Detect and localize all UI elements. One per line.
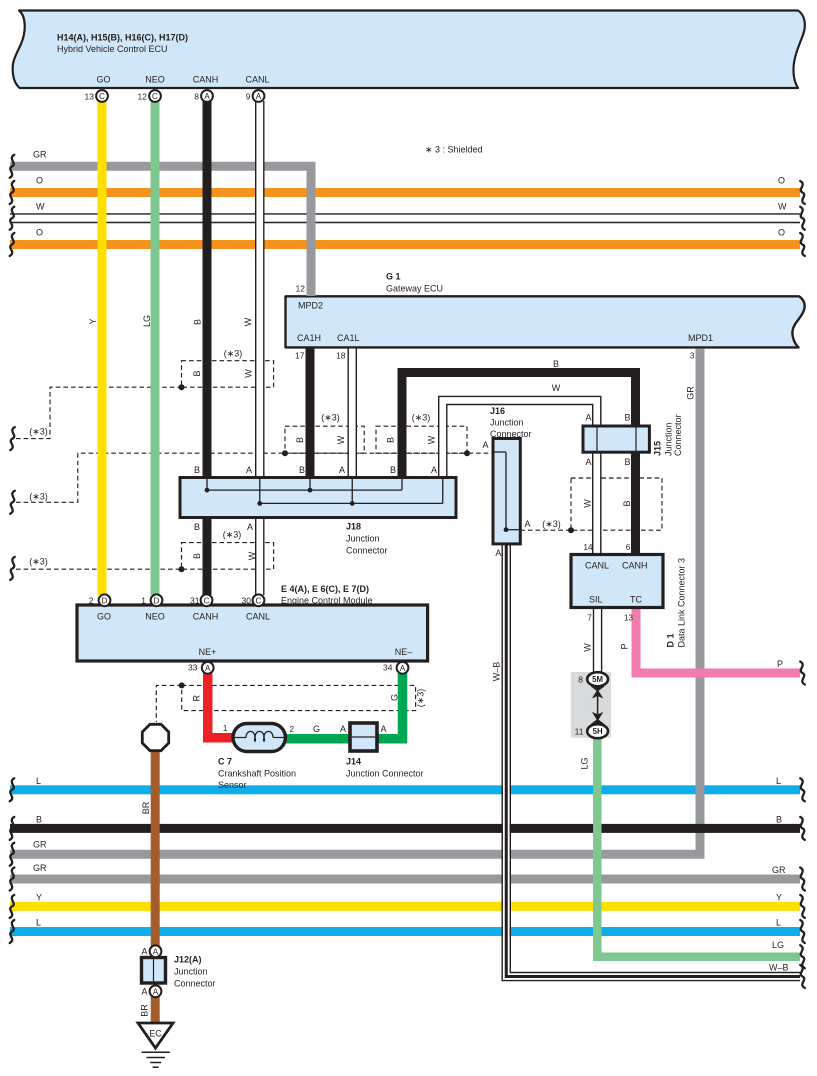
svg-text:2: 2 [89,596,94,606]
svg-text:Junction Connector: Junction Connector [346,769,424,779]
svg-text:G 1: G 1 [386,272,401,282]
svg-text:(∗3): (∗3) [412,413,431,423]
svg-text:W: W [583,499,593,508]
svg-text:A: A [247,522,253,532]
svg-text:∗ 3 : Shielded: ∗ 3 : Shielded [425,145,483,155]
svg-text:A: A [246,465,252,475]
svg-text:LG: LG [580,757,590,769]
svg-text:(∗3): (∗3) [321,413,340,423]
svg-text:1: 1 [223,723,228,733]
svg-text:12: 12 [296,284,306,294]
svg-text:L: L [36,918,41,928]
svg-text:A: A [495,548,501,558]
svg-text:B: B [295,437,305,443]
svg-text:GO: GO [96,75,110,85]
svg-text:R: R [192,694,202,701]
svg-text:L: L [36,776,41,786]
svg-text:Data Link Connector 3: Data Link Connector 3 [677,558,687,648]
svg-text:B: B [193,319,203,325]
svg-text:B: B [36,815,42,825]
svg-text:NE+: NE+ [199,647,217,657]
svg-text:L: L [776,918,781,928]
svg-text:B: B [386,437,396,443]
svg-text:CANL: CANL [246,612,270,622]
svg-text:A: A [204,92,210,101]
svg-text:G: G [313,724,320,734]
svg-text:11: 11 [575,727,584,737]
svg-text:P: P [620,643,630,649]
svg-text:A: A [340,724,346,734]
svg-text:(∗3): (∗3) [223,530,242,540]
svg-text:NEO: NEO [145,75,165,85]
svg-text:A: A [431,465,437,475]
svg-text:SIL: SIL [589,595,603,605]
svg-text:A: A [141,947,147,957]
svg-text:Junction: Junction [174,967,208,977]
svg-text:31: 31 [190,596,200,606]
svg-text:9: 9 [246,91,251,101]
svg-text:GR: GR [33,863,47,873]
svg-text:W: W [244,369,254,378]
svg-text:GR: GR [686,386,696,400]
svg-text:J14: J14 [346,757,361,767]
svg-text:B: B [553,359,559,369]
svg-text:W–B: W–B [492,662,502,682]
svg-text:BR: BR [140,1004,150,1017]
svg-text:O: O [36,228,43,238]
svg-text:GR: GR [772,865,786,875]
svg-text:C 7: C 7 [218,757,232,767]
svg-text:C: C [256,596,262,605]
svg-text:J15: J15 [653,441,663,456]
svg-text:B: B [192,553,202,559]
svg-text:W: W [583,643,593,652]
svg-text:O: O [778,176,785,186]
svg-text:GR: GR [33,150,47,160]
svg-text:J12(A): J12(A) [174,955,202,965]
svg-text:B: B [194,465,200,475]
svg-text:EC: EC [149,1029,162,1039]
svg-text:3: 3 [690,351,695,361]
svg-text:Connector: Connector [346,546,388,556]
svg-text:13: 13 [624,614,633,623]
svg-text:W: W [552,383,561,393]
svg-text:W: W [36,202,45,212]
svg-text:A: A [482,440,488,450]
svg-text:B: B [776,815,782,825]
svg-text:Junction: Junction [663,422,673,456]
svg-text:34: 34 [383,663,393,673]
svg-text:CANH: CANH [622,561,648,571]
svg-text:Gateway ECU: Gateway ECU [386,284,443,294]
svg-text:GR: GR [33,840,47,850]
svg-text:CANL: CANL [585,561,609,571]
svg-text:C: C [99,92,105,101]
svg-text:B: B [194,522,200,532]
svg-text:A: A [141,987,147,997]
svg-text:Crankshaft Position: Crankshaft Position [218,769,296,779]
svg-text:A: A [525,519,531,529]
svg-text:CA1H: CA1H [297,333,321,343]
svg-text:(∗3): (∗3) [29,492,48,502]
svg-text:NEO: NEO [145,612,165,622]
svg-text:A: A [400,664,406,673]
svg-text:J18: J18 [346,522,361,532]
svg-text:8: 8 [578,675,583,685]
svg-text:B: B [299,465,305,475]
svg-text:E 4(A), E 6(C), E 7(D): E 4(A), E 6(C), E 7(D) [281,584,369,594]
svg-text:A: A [153,947,159,956]
svg-text:A: A [205,664,211,673]
svg-text:P: P [777,659,783,669]
svg-text:W: W [778,202,787,212]
svg-text:18: 18 [336,351,346,361]
svg-text:D: D [102,596,108,605]
svg-text:A: A [153,987,159,996]
svg-text:Junction: Junction [346,534,380,544]
svg-text:6: 6 [626,543,631,552]
svg-text:C: C [204,596,210,605]
svg-text:(∗3): (∗3) [224,349,243,359]
svg-text:Y: Y [36,893,42,903]
svg-text:B: B [390,465,396,475]
svg-text:Sensor: Sensor [218,780,247,790]
svg-text:2: 2 [290,725,295,734]
svg-text:Connector: Connector [174,979,216,989]
svg-text:GO: GO [97,612,111,622]
svg-text:G: G [390,694,400,701]
svg-text:NE–: NE– [395,647,413,657]
svg-text:O: O [36,176,43,186]
svg-text:L: L [776,776,781,786]
svg-text:O: O [778,228,785,238]
svg-text:W–B: W–B [769,963,789,973]
svg-text:17: 17 [295,351,305,361]
svg-text:A: A [339,465,345,475]
svg-text:TC: TC [630,595,642,605]
svg-text:W: W [336,435,346,444]
svg-text:14: 14 [584,543,593,552]
svg-text:Y: Y [776,893,782,903]
svg-text:33: 33 [188,663,198,673]
svg-text:C: C [152,92,158,101]
svg-text:H14(A), H15(B), H16(C), H17(D): H14(A), H15(B), H16(C), H17(D) [57,33,188,43]
svg-text:CANL: CANL [245,75,269,85]
svg-text:D 1: D 1 [666,633,676,647]
svg-text:B: B [192,370,202,376]
svg-text:A: A [585,457,591,467]
svg-text:W: W [427,435,437,444]
svg-text:J16: J16 [490,406,505,416]
svg-text:13: 13 [85,91,95,101]
svg-text:CANH: CANH [193,75,219,85]
svg-text:CA1L: CA1L [337,333,360,343]
svg-text:MPD1: MPD1 [688,333,713,343]
svg-text:B: B [624,457,630,467]
svg-text:A: A [256,92,262,101]
svg-text:Engine Control Module: Engine Control Module [281,596,373,606]
svg-text:1: 1 [141,596,146,606]
svg-text:5M: 5M [592,675,603,684]
svg-text:Junction: Junction [490,418,524,428]
svg-text:(∗3): (∗3) [416,689,426,708]
svg-text:BR: BR [141,801,151,814]
svg-text:MPD2: MPD2 [298,301,323,311]
svg-text:Hybrid Vehicle Control ECU: Hybrid Vehicle Control ECU [57,44,168,54]
svg-text:W: W [243,317,253,326]
svg-text:LG: LG [772,940,784,950]
svg-text:12: 12 [138,91,148,101]
svg-text:B: B [622,500,632,506]
svg-text:A: A [380,724,386,734]
svg-text:30: 30 [242,596,252,606]
svg-text:Connector: Connector [490,429,532,439]
svg-text:(∗3): (∗3) [29,427,48,437]
svg-text:Y: Y [88,318,98,324]
svg-text:Connector: Connector [673,414,683,456]
svg-text:LG: LG [142,315,152,327]
svg-text:D: D [154,596,160,605]
svg-text:B: B [624,413,630,423]
svg-text:W: W [247,551,257,560]
svg-text:8: 8 [194,91,199,101]
svg-text:CANH: CANH [193,612,219,622]
svg-text:(∗3): (∗3) [29,557,48,567]
svg-text:(∗3): (∗3) [542,519,561,529]
svg-text:A: A [585,413,591,423]
svg-text:5H: 5H [593,727,603,736]
svg-text:7: 7 [587,614,592,623]
